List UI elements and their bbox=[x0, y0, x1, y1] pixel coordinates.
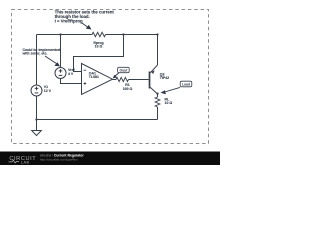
node junction collector bbox=[156, 92, 158, 94]
wire top rail left segment bbox=[37, 34, 93, 36]
wire V1 bottom to ground bbox=[36, 96, 38, 130]
svg-text:12 V: 12 V bbox=[44, 89, 52, 93]
svg-text:Oout: Oout bbox=[119, 69, 128, 73]
ground bbox=[32, 131, 42, 136]
svg-text:10 Ω: 10 Ω bbox=[165, 101, 173, 105]
wire Vref to op-amp + input bbox=[61, 78, 82, 83]
wire V1 top column bbox=[36, 35, 38, 86]
resistor R1 bbox=[116, 77, 129, 81]
wire Q3 emitter to top rail bbox=[157, 35, 159, 66]
wire top rail right segment bbox=[106, 34, 158, 36]
wire feedback: top rail to op-amp - input bbox=[74, 35, 124, 72]
annotation: zener note text bbox=[22, 48, 61, 56]
resistor Rprog bbox=[92, 32, 105, 36]
dashed selection border bbox=[12, 10, 209, 144]
node junction top rail bbox=[122, 33, 124, 35]
op-amp minus input glyph bbox=[84, 69, 87, 71]
annotation: resistor note text bbox=[55, 10, 115, 24]
wire bottom rail bbox=[37, 119, 158, 121]
transistor Q3 base bar bbox=[149, 72, 151, 89]
svg-text:with zener, etc.: with zener, etc. bbox=[22, 52, 48, 56]
annotation arrow to Rprog bbox=[82, 23, 88, 27]
transistor Q3 emitter arrow (PNP) bbox=[151, 70, 155, 74]
source V1 bbox=[31, 85, 42, 96]
flag Oout bbox=[113, 67, 129, 78]
op-amp OA1 bbox=[82, 64, 113, 95]
wire R1 to Q3 base bbox=[129, 79, 149, 81]
svg-text:10 Ω: 10 Ω bbox=[95, 45, 103, 49]
wire Q3 collector to RL bbox=[157, 94, 159, 98]
node junction bottom rail bbox=[35, 118, 37, 120]
svg-text:Load: Load bbox=[182, 83, 190, 87]
svg-text:LAB: LAB bbox=[21, 161, 29, 165]
svg-text:100 Ω: 100 Ω bbox=[123, 87, 133, 91]
node junction Vref top bbox=[59, 33, 61, 35]
wire Vref top column bbox=[60, 35, 62, 68]
op-amp plus input glyph bbox=[84, 82, 87, 85]
node junction emitter top bbox=[156, 33, 158, 35]
svg-text:TL081: TL081 bbox=[89, 75, 99, 79]
transistor Q3 collector lead bbox=[150, 87, 157, 94]
svg-text:4 V: 4 V bbox=[68, 72, 74, 76]
wire RL to bottom rail bbox=[157, 107, 159, 120]
svg-text:I = Vref/Rprog: I = Vref/Rprog bbox=[55, 19, 83, 24]
svg-text:TIP42: TIP42 bbox=[160, 76, 169, 80]
wire op-amp output to R1 bbox=[113, 79, 117, 81]
transistor Q3 emitter lead bbox=[150, 65, 157, 73]
source Vref bbox=[55, 68, 66, 79]
logo waveform and LAB bbox=[9, 160, 20, 163]
annotation arrow to Vref bbox=[45, 56, 57, 64]
resistor RL bbox=[155, 97, 160, 107]
flag Load bbox=[161, 81, 192, 94]
footer bar bbox=[0, 152, 220, 166]
svg-text:http://circuitlab.com/cgw4km: http://circuitlab.com/cgw4km bbox=[40, 157, 78, 161]
